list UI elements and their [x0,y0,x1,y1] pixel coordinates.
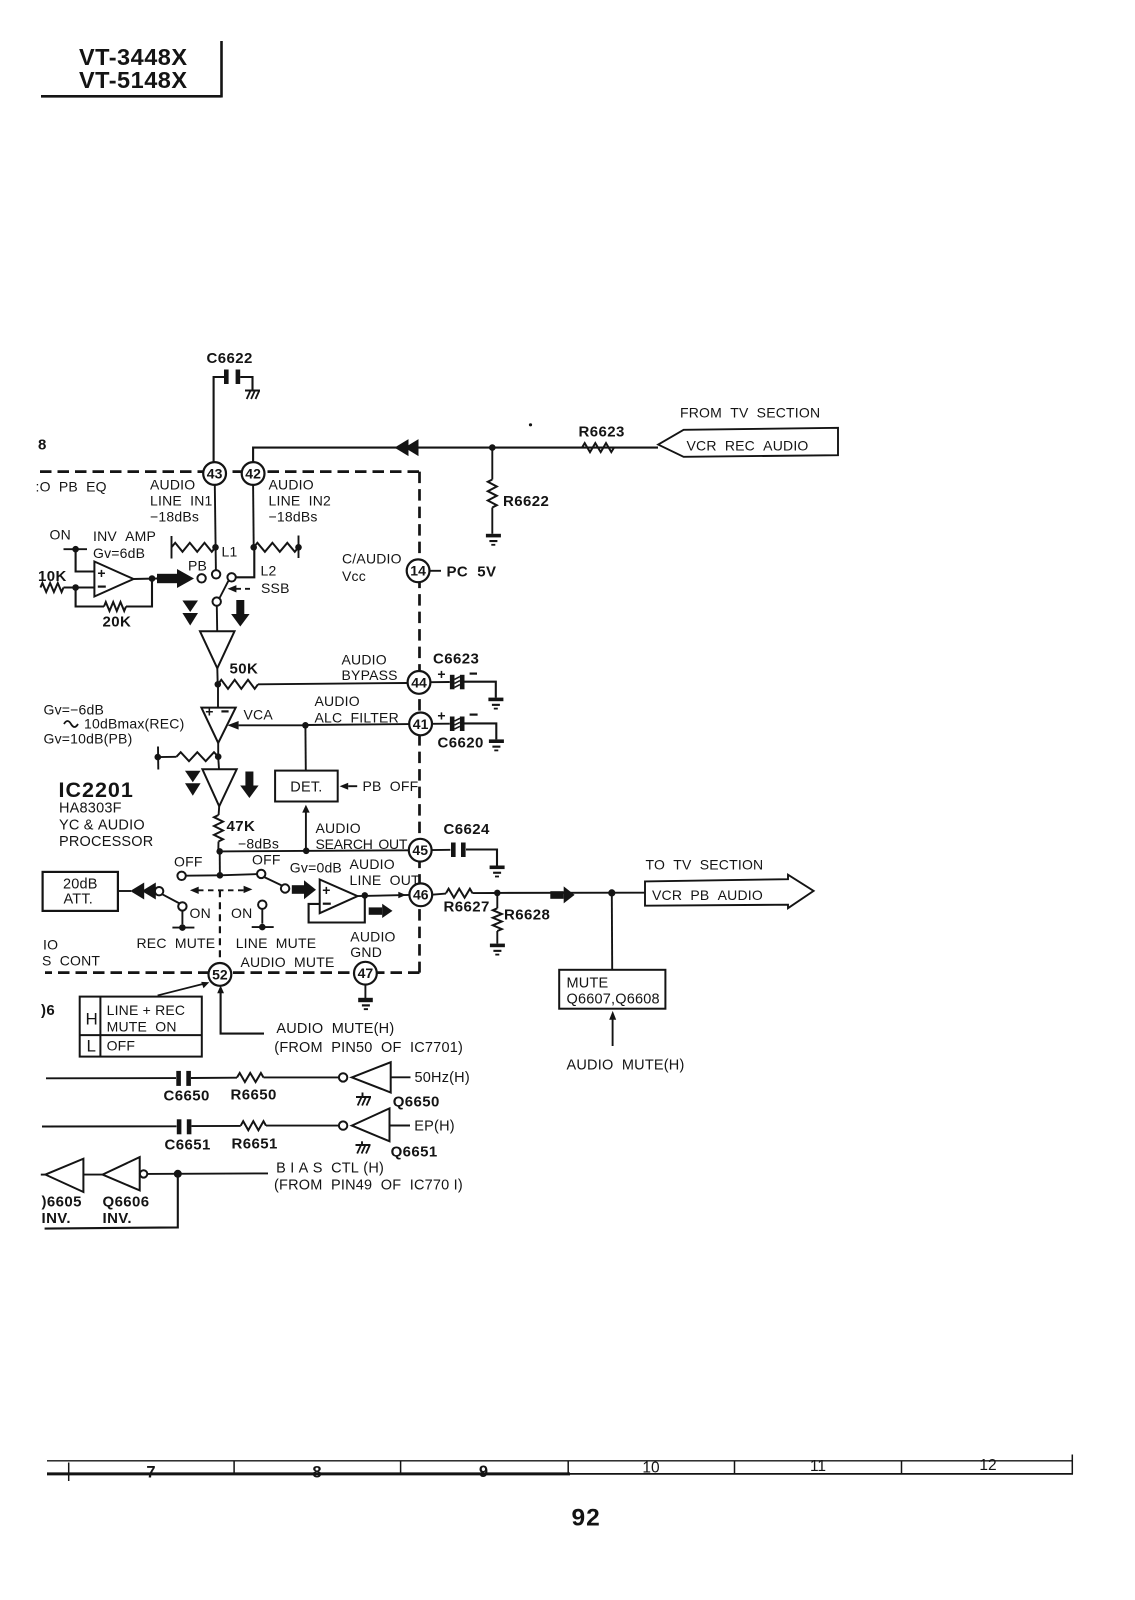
label PB OFF [363,778,419,794]
svg-text:R6623: R6623 [579,424,625,441]
switch pole rec mute [155,887,163,895]
resistor R6623 label [579,424,625,441]
svg-text:ATT.: ATT. [64,892,94,908]
resistor R6650 [237,1073,264,1082]
transistor Q6650 inverter [339,1062,391,1092]
label FROM PIN49 OF IC7701 [274,1178,463,1194]
label -8dBs [238,836,279,852]
label TO TV SECTION [646,857,764,873]
IC pin 41 [409,713,432,736]
svg-text:R6628: R6628 [504,907,550,924]
table H/L mute states [80,997,202,1057]
svg-text:AUDIO: AUDIO [350,856,395,872]
svg-text:HA8303F: HA8303F [59,801,122,817]
wire ALC to pin 41 [305,723,409,726]
arrow PB OFF into DET [340,783,358,790]
ground below R6622 [486,534,501,546]
label Gv=10dB(PB) [44,731,133,747]
wire R6650 to Q6650 [264,1076,339,1078]
label Gv=0dB (out) [290,860,342,876]
svg-text:REC MUTE: REC MUTE [137,935,216,951]
svg-text:)6605: )6605 [42,1194,82,1211]
label ON (rec mute) [190,905,211,921]
svg-text:S CONT: S CONT [42,953,100,969]
svg-text:Gv=10dB(PB): Gv=10dB(PB) [44,731,133,747]
switch lever [219,580,228,598]
label Gv=-6dB [44,702,105,718]
svg-text:VCA: VCA [244,707,274,723]
wire C6622 left lead to pin 43 [214,377,224,462]
label L1 [222,544,238,560]
node mute tap [608,889,615,896]
capacitor C6622 [224,370,240,385]
svg-text:AUDIO: AUDIO [342,652,387,668]
wire pin 45 to C6624 [432,849,451,851]
wire pin 41 to C6620 [432,723,450,725]
resistor L1 input [172,536,216,559]
svg-text:Gv=6dB: Gv=6dB [93,545,145,561]
svg-text:AUDIO MUTE(H): AUDIO MUTE(H) [276,1021,394,1037]
svg-text:7: 7 [146,1464,155,1482]
svg-text:L1: L1 [222,544,238,560]
switch contact OFF rec [177,872,185,880]
wire bias ctl [147,1170,268,1178]
transistor Q6606 label [103,1194,150,1228]
svg-text:R6650: R6650 [231,1087,277,1104]
arrow table to pin 52 [158,982,210,996]
svg-text:C6620: C6620 [438,735,484,752]
arrow chevrons down (rec path) [185,771,201,796]
svg-text:AUDIO: AUDIO [350,929,395,945]
svg-text:ALC FILTER: ALC FILTER [315,709,399,725]
svg-text:R6627: R6627 [444,899,490,916]
page number 92 [572,1505,601,1532]
label 50Hz(H) [415,1070,470,1086]
flag VCR REC AUDIO [658,428,838,457]
svg-text:43: 43 [207,465,223,481]
ground below R6628 [490,944,505,956]
speck [529,423,532,426]
IC2201 boundary right dashed [418,472,421,973]
label AUDIO LINE IN2 [269,477,332,525]
model label VT-3448X / VT-5148X [79,44,188,93]
node junction R6622 tap [489,444,496,451]
label O PB EQ [36,479,107,495]
label VCR PB AUDIO [652,887,763,903]
svg-text:47K: 47K [227,818,256,835]
wire C6624 to ground [466,850,497,866]
svg-text:(FROM PIN49 OF IC770 I): (FROM PIN49 OF IC770 I) [274,1178,463,1194]
switch contact OFF line [257,870,265,878]
resistor R6622 label [503,493,549,510]
transistor Q6651 label [391,1144,438,1161]
IC2201 boundary top dashed [40,470,420,473]
svg-text:INV.: INV. [42,1210,71,1227]
wire EP input [42,1125,177,1127]
resistor 47K [214,806,223,851]
resistor R6628 label [504,907,550,924]
ground at C6624 [490,866,505,878]
svg-text:10: 10 [642,1460,660,1477]
svg-text:INV AMP: INV AMP [93,528,156,544]
svg-text:12: 12 [979,1457,996,1474]
wire buffer A output [215,668,222,687]
arrow down thick (L path) [231,600,250,627]
svg-text:50Hz(H): 50Hz(H) [415,1070,470,1086]
capacitor C6624 [451,843,466,858]
wire pin 42 to VCR REC AUDIO net [253,448,658,463]
ruler numbers [146,1457,996,1482]
capacitor C6622 label [207,350,253,367]
ground at C6622 [245,391,260,400]
svg-text:INV.: INV. [103,1210,132,1227]
wire bias ctl down [45,1174,178,1229]
svg-text:20K: 20K [103,614,132,631]
svg-text:BYPASS: BYPASS [342,667,398,683]
wire ON contact to op-amp + [76,549,95,571]
resistor L2 input [254,536,302,559]
svg-text:MUTE: MUTE [567,976,609,992]
svg-text:Q6606: Q6606 [103,1194,150,1211]
wire to TV section [497,892,645,894]
svg-text:IC2201: IC2201 [59,778,134,802]
IC pin 47 [354,962,377,985]
arrow line out (thick) [369,904,393,918]
svg-text:EP(H): EP(H) [414,1119,454,1135]
svg-text:R6622: R6622 [503,493,549,510]
plus mark C6620 [437,708,445,724]
resistor R6627 [446,889,473,898]
node gain set end [155,747,162,770]
label OFF (rec) [174,854,203,870]
block MUTE Q6607 Q6608 [559,970,665,1009]
svg-text:C6622: C6622 [207,350,253,367]
resistor R6622 [488,448,497,534]
IC2201 boundary bottom dashed [45,971,420,974]
resistor R6651 [241,1121,266,1130]
arrow audio mute into pin 52 [217,985,264,1033]
svg-text:C6651: C6651 [165,1137,211,1154]
label )6 fragment [41,1002,55,1019]
arrow search-out into DET [302,805,310,851]
label 8 (grid ref) [38,437,47,454]
amp buffer B [202,769,236,806]
amp buffer A [200,631,235,668]
label AUDIO LINE IN1 [150,477,213,525]
svg-text:B I A S CTL (H): B I A S CTL (H) [276,1161,384,1177]
capacitor C6650 [176,1071,191,1086]
svg-text:)6: )6 [41,1002,55,1019]
svg-text:L: L [87,1037,96,1056]
wire ALC junction to DET [304,725,306,770]
label L2 [261,563,277,579]
minus mark C6620 [470,713,478,715]
capacitor C6651 label [165,1137,211,1154]
label 47K [227,818,256,835]
wire pin 43 down to selector [215,485,216,570]
label VCR REC AUDIO [687,438,809,454]
svg-text:+: + [205,704,213,720]
svg-text:Vcc: Vcc [342,568,366,584]
ruler bottom line [47,1472,1073,1475]
arrow audio mute into block [609,1011,616,1046]
resistor 50K [218,680,258,689]
resistor 10K [41,583,95,592]
svg-text:45: 45 [412,842,428,858]
svg-text:PB OFF: PB OFF [363,778,419,794]
svg-text:ON: ON [190,905,211,921]
IC pin 46 [409,883,432,906]
svg-text:SSB: SSB [261,580,290,596]
wire feedback left leg [76,588,104,607]
IC pin 52 [209,963,232,986]
transistor Q6605 inverter [41,1159,84,1192]
switch pole line mute [281,884,289,892]
wire mute tap down [611,893,613,970]
capacitor C6650 label [164,1088,210,1105]
wire C6651 to R6651 [192,1125,241,1127]
wire VCA out [215,743,222,760]
model label corner rule [41,41,222,98]
svg-text:(FROM PIN50 OF IC7701): (FROM PIN50 OF IC7701) [274,1040,463,1056]
svg-text::O PB EQ: :O PB EQ [36,479,107,495]
op-amp INV AMP [94,562,133,597]
svg-text:C6623: C6623 [433,651,479,668]
capacitor C6620 (polarized) [450,717,465,732]
svg-text:LINE IN2: LINE IN2 [269,493,332,509]
svg-text:10dBmax(REC): 10dBmax(REC) [84,716,184,732]
plus mark C6623 [437,666,445,682]
label AUDIO LINE OUT [350,856,421,888]
svg-text:AUDIO MUTE(H): AUDIO MUTE(H) [567,1058,685,1074]
switch contact line mute on [258,901,266,909]
wire L2 contact riser [236,549,255,578]
svg-text:14: 14 [410,563,426,579]
wire into buffer B [217,757,220,770]
svg-text:OFF: OFF [107,1038,136,1054]
transistor Q6650 label [393,1094,440,1111]
wire selector to buffer amp [216,606,218,631]
arrow pb audio (thick) [550,886,574,903]
label 50K [230,661,259,678]
IC pin 14 [407,559,430,582]
svg-text:11: 11 [810,1458,826,1475]
svg-text:Q6651: Q6651 [391,1144,438,1161]
svg-text:9: 9 [479,1463,488,1481]
svg-text:44: 44 [411,674,427,690]
wire pin 44 to C6623 [431,681,450,683]
svg-text:LINE MUTE: LINE MUTE [236,935,317,951]
svg-text:41: 41 [413,716,429,732]
wire R6651 to Q6651 [266,1125,339,1127]
svg-text:IO: IO [43,937,58,953]
amp VCA [201,704,235,743]
capacitor C6623 (polarized) [450,675,465,690]
label 10dBmax(REC) [64,716,184,732]
label REC MUTE [137,935,216,951]
switch pole (selector) [227,573,235,581]
svg-text:−18dBs: −18dBs [269,509,318,525]
wire feedback right leg [126,579,152,607]
svg-text:Q6607,Q6608: Q6607,Q6608 [567,991,660,1007]
ground at Q6651 [356,1141,371,1153]
svg-text:VCR REC AUDIO: VCR REC AUDIO [687,438,809,454]
label FROM PIN50 OF IC7701 [274,1040,463,1056]
wire pin 42 down to L2 junction [252,485,255,547]
switch contact rec mute on [178,902,186,910]
label HA8303F [59,801,122,817]
label PROCESSOR [59,834,153,850]
svg-text:ON: ON [231,905,252,921]
label FROM TV SECTION [680,405,820,421]
svg-text:+: + [437,708,445,724]
label OFF (line) [252,852,281,868]
wire Q6650 output [391,1076,411,1078]
svg-text:ON: ON [50,527,71,543]
svg-text:AUDIO: AUDIO [316,820,361,836]
switch lever line mute [264,877,282,886]
IC pin 44 [408,671,431,694]
resistor R6650 label [231,1087,277,1104]
svg-text:AUDIO: AUDIO [315,693,360,709]
svg-text:DET.: DET. [290,780,322,796]
svg-text:47: 47 [358,965,374,981]
svg-text:20dB: 20dB [63,877,98,893]
label PC 5V [447,564,497,581]
svg-text:−18dBs: −18dBs [150,509,199,525]
wire C6620 to ground [465,723,497,739]
label ON (line mute) [231,905,252,921]
svg-text:PB: PB [188,558,207,574]
label SSB [261,580,290,596]
wire inv amp output [134,575,158,582]
resistor 20K [104,602,126,611]
ground at pin 47 [358,998,373,1010]
label AUDIO ALC FILTER [315,693,399,725]
label S CONT fragment [42,953,100,969]
svg-text:PC 5V: PC 5V [447,564,497,581]
svg-text:8: 8 [312,1464,321,1482]
switch contact PB [197,574,205,582]
svg-text:LINE IN1: LINE IN1 [150,493,213,509]
op-amp line out buffer [320,880,358,914]
svg-text:−8dBs: −8dBs [238,836,279,852]
svg-text:OFF: OFF [174,854,203,870]
wire pin 44 line down to VCA [217,684,219,707]
resistor R6623 [582,443,614,452]
wire audio search out [216,848,409,855]
arrow dashed both ways (mute select) [190,886,253,894]
wire line mute on to tick [252,909,274,930]
arrow inv amp output (thick) [157,569,194,588]
svg-text:MUTE ON: MUTE ON [107,1019,177,1035]
switch contact L1 [212,570,220,578]
label EP(H) [414,1119,454,1135]
label AUDIO MUTE(H) [276,1021,394,1037]
wire OFF contact bar [186,874,258,876]
label VCA [244,707,274,723]
wire search line to OFF contacts [217,851,224,878]
label BIAS CTL (H) [276,1161,384,1177]
arrow into VCA (ALC) [227,721,305,730]
flag VCR PB AUDIO [645,875,814,909]
wire pin 47 to ground [364,985,366,998]
svg-text:92: 92 [572,1505,601,1532]
wire rec mute on to tick [172,911,194,931]
svg-text:+: + [322,882,330,898]
wire C6650 to R6650 [191,1077,237,1079]
label 20K [103,614,132,631]
capacitor C6624 label [444,821,490,838]
svg-text:Gv=0dB: Gv=0dB [290,860,342,876]
svg-text:R6651: R6651 [232,1136,278,1153]
svg-text:OFF: OFF [252,852,281,868]
svg-text:GND: GND [350,944,382,960]
wire R6627 to R6628 node [473,890,501,897]
label ON (inv amp) [50,527,71,543]
resistor R6651 label [232,1136,278,1153]
label LINE MUTE [236,935,317,951]
svg-text:TO TV SECTION: TO TV SECTION [646,857,764,873]
svg-text:46: 46 [413,887,429,903]
svg-text:H: H [86,1010,98,1029]
svg-text:+: + [437,666,445,682]
IC pin 45 [409,839,432,862]
label PB [188,558,207,574]
svg-text:PROCESSOR: PROCESSOR [59,834,153,850]
node L2 junction [250,544,257,551]
wire op-amp out to pin 46 [358,892,410,899]
resistor R6628 [493,893,502,944]
resistor R6627 label [444,899,490,916]
pin 14 lead [430,570,441,572]
capacitor C6623 label [433,651,479,668]
ruler top line [47,1460,1073,1462]
arrow SSB dashed [228,585,254,592]
IC pin 43 [203,462,226,485]
ground at Q6650 [356,1093,371,1106]
svg-text:LINE OUT: LINE OUT [350,872,421,888]
wire ATT to rec mute switch [118,890,131,892]
resistor VCA gain set [158,752,218,761]
transistor Q6651 inverter [339,1108,390,1141]
svg-text:50K: 50K [230,661,259,678]
svg-text:C/AUDIO: C/AUDIO [342,551,402,567]
label IC2201 [59,778,134,802]
minus mark C6623 [470,672,477,674]
label YC & AUDIO [59,818,145,834]
label Gv=6dB [93,545,145,561]
arrow chevrons down (PB path) [182,601,198,626]
svg-text:AUDIO MUTE: AUDIO MUTE [241,954,335,970]
svg-text:LINE + REC: LINE + REC [107,1002,186,1018]
svg-text:52: 52 [212,966,228,982]
label IO fragment [43,937,58,953]
double arrowhead rec mute [130,883,156,900]
svg-text:+: + [97,565,105,581]
svg-text:C6624: C6624 [444,821,490,838]
node L1 junction [212,544,219,551]
label 10K [38,568,67,585]
double arrowhead on rec audio wire [395,439,419,456]
label C/AUDIO Vcc [342,551,402,585]
ground at C6623 [488,698,503,710]
label AUDIO MUTE [241,954,335,970]
block DET [275,771,338,802]
capacitor C6651 [177,1119,192,1134]
wire 50Hz input [46,1077,176,1079]
node inv amp inverting input [72,584,79,591]
